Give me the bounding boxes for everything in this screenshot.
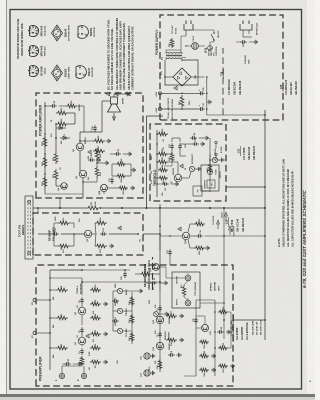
wire preamp to B+ tap <box>50 277 82 279</box>
wire R49 <box>171 162 173 166</box>
note marker triangle power supply <box>174 86 177 90</box>
filter capacitor C30 electrolytic <box>198 92 201 94</box>
capacitor C28a <box>217 331 220 333</box>
terminal VC from volume control <box>33 332 36 335</box>
resistor R38 <box>116 174 126 178</box>
note marker triangle power amp <box>88 150 91 154</box>
power amplifier section box <box>36 93 143 198</box>
filter capacitor C31 electrolytic <box>198 108 201 110</box>
wire preamp supply rail <box>49 270 51 370</box>
wire speed pot <box>210 159 212 161</box>
resistor R2 bias <box>56 346 68 350</box>
wire B+ rail vertical between reverb and power amp <box>33 207 265 209</box>
resistor R4 bias <box>56 288 68 292</box>
wire output box to power supply <box>209 154 211 165</box>
jack reverb input <box>185 300 191 306</box>
wire rail tap to reverb <box>37 208 39 213</box>
wire bias chain drops <box>45 193 83 195</box>
transistor base view Q11 2N2147 <box>76 66 86 79</box>
page bottom edge shadow <box>0 394 315 397</box>
transformer T1 secondary winding <box>166 58 169 59</box>
fuse F1 <box>208 46 213 51</box>
wire preamp row link <box>159 257 161 292</box>
power supply section box <box>160 15 283 120</box>
wire surge resistor <box>171 34 173 38</box>
wire preamp fourth row bus <box>214 300 216 376</box>
junction reverb-mixer <box>169 235 171 237</box>
transistor base view Q10 2N3053 <box>78 26 88 39</box>
power supply internal dashed divider <box>222 48 224 115</box>
potentiometer volume control <box>117 328 122 333</box>
ground power amp emitter <box>104 162 106 164</box>
wire feedback loop <box>96 178 98 182</box>
transistor Q7 oscillator <box>174 174 182 182</box>
resistor R21 <box>54 169 58 181</box>
wire mixer to bottom rail <box>204 235 265 237</box>
wire bias divider reverb <box>54 245 58 247</box>
resistor R9 <box>90 302 101 306</box>
capacitor C2 coupling <box>81 331 83 334</box>
resistor R53 <box>218 310 228 314</box>
wire tremolo top rail <box>156 130 158 197</box>
transistor Q16 reverb send follower <box>153 264 160 271</box>
resistor R40 between feeds <box>180 95 184 108</box>
capacitor C4 treble <box>112 320 115 322</box>
resistor R8 <box>90 316 101 320</box>
capacitor C25 <box>195 321 197 324</box>
page left edge shadow <box>6 0 7 394</box>
wire pot to transistor <box>182 177 189 179</box>
transistor base view U1 MPSA20 <box>30 25 39 36</box>
resistor R18 decoupling <box>140 272 151 276</box>
capacitor C35 bypass electrolytic <box>144 353 150 359</box>
resistor R39 <box>116 162 126 166</box>
wire bootstrap <box>45 105 50 107</box>
resistor R55 rail decoupling <box>86 206 100 210</box>
wire fourth row bottoms <box>228 347 231 349</box>
ground predriver <box>130 187 132 189</box>
wire C20 <box>110 153 114 155</box>
wire secondary to bridge loop <box>182 57 186 59</box>
wire VC terminal <box>36 332 50 334</box>
bridge rectifier SR1 <box>173 68 191 86</box>
resistor R7 <box>90 332 101 336</box>
resistor R27 feedback <box>93 149 105 153</box>
resistor R29 bias chain <box>43 136 47 148</box>
notes block <box>106 92 109 96</box>
wire line bypass <box>236 41 240 43</box>
wire reverb output <box>109 233 138 235</box>
reverb follower section box <box>33 213 143 255</box>
transformer T1 primary winding <box>166 52 169 53</box>
junction rail 4 <box>146 207 148 209</box>
junction power amp bias <box>55 137 57 139</box>
wire preamp signal line <box>81 345 83 346</box>
resistor R26 load <box>56 111 68 115</box>
ground third row a <box>211 369 213 371</box>
ground second row b <box>179 315 181 317</box>
resistor R41 tremolo <box>208 163 212 174</box>
wire C29 <box>124 269 126 271</box>
power transistor case view Q9 2N3055 TO-3 <box>52 65 63 81</box>
wire switch connections <box>209 42 211 46</box>
wire line cord upper <box>185 30 187 36</box>
jack reverb output <box>185 275 191 281</box>
ground C24 <box>204 137 206 139</box>
transistor Q14 mixer <box>182 232 190 240</box>
input jack J2 <box>81 373 86 378</box>
wire reverb unit jacks <box>184 297 188 300</box>
resistor R51 <box>218 364 228 368</box>
wire bottom supply rail <box>264 110 266 340</box>
resistor R37 mixer load <box>194 222 205 226</box>
foot switch cable dashed wires <box>27 199 29 256</box>
wire C27 <box>157 183 162 185</box>
ground filter cap <box>163 282 165 284</box>
ground lower network <box>131 169 133 171</box>
wire VG terminal <box>36 299 50 301</box>
resistor R44 tone <box>130 296 134 306</box>
wire preamp inter-row <box>82 281 160 283</box>
ground tremolo <box>197 168 199 170</box>
capacitor C19 compensation <box>111 181 113 184</box>
resistor R24 emitter <box>95 148 99 160</box>
note marker triangle mixer <box>178 227 181 231</box>
reverberation section dashed boundary <box>152 257 154 290</box>
capacitor C33 line bypass <box>240 41 243 43</box>
potentiometer treble control <box>117 308 122 313</box>
wire tap reverb follower output <box>143 233 160 235</box>
resistor R50 surge <box>170 38 174 48</box>
junction bridge loop <box>181 59 183 61</box>
wire power amp input line <box>82 178 84 198</box>
speaker SP1 <box>111 97 118 104</box>
relay RLY coil <box>207 180 215 188</box>
ground fourth row b <box>226 331 228 333</box>
wire speaker return <box>113 94 115 97</box>
wire oscillator loop <box>168 161 178 163</box>
wire collector Q5 to Q6 <box>79 151 81 171</box>
wire tremolo lower bus <box>209 138 211 190</box>
B+ feed line 1 <box>162 92 199 94</box>
capacitor C34 bypass electrolytic <box>144 370 150 376</box>
junction rail 1 <box>59 207 61 209</box>
output relay and fuse box <box>201 165 219 191</box>
wire preamp third row bus <box>195 316 197 376</box>
capacitor C1 coupling <box>81 352 83 355</box>
ground bypass caps <box>150 372 152 374</box>
resistor R36 mixer bias <box>194 246 205 250</box>
potentiometer bass control <box>117 288 122 293</box>
wire reverb mid <box>61 233 84 235</box>
ground C20 <box>127 153 129 155</box>
wire preamp top bus extension <box>50 269 130 271</box>
terminal tick b <box>215 144 217 148</box>
wire tap preamp to bottom rail <box>233 319 265 321</box>
wire zobel <box>89 140 93 142</box>
ground second row c <box>177 354 179 356</box>
ground line bypass <box>253 41 255 43</box>
note marker triangle tremolo <box>180 164 183 168</box>
resistor R6 load <box>90 346 101 350</box>
transistor Q5 driver <box>79 170 87 178</box>
ground fourth row a <box>230 365 232 367</box>
capacitor C15 <box>88 159 91 161</box>
resistor R5 load <box>90 360 101 364</box>
bridge wire loop <box>165 60 198 85</box>
ground preamp stage 2 <box>103 333 105 335</box>
resistor R35 predriver emitter <box>118 186 128 190</box>
wire reverb send <box>159 266 166 268</box>
capacitor C21 phase shift <box>171 147 173 150</box>
note marker triangle preamp <box>86 334 89 338</box>
ground reverb follower <box>109 245 111 247</box>
resistor R14 collector <box>95 221 107 225</box>
terminal tick a <box>215 156 217 160</box>
resistor R52 <box>218 346 228 350</box>
wire mixer bus <box>159 204 161 257</box>
terminal arrow a <box>217 220 220 224</box>
ground speed cap <box>200 143 202 145</box>
wire low bus riser <box>200 302 224 304</box>
wire line to transformer <box>181 35 186 37</box>
resistor R25 load <box>56 122 68 126</box>
wire bootstrap to output <box>77 105 84 107</box>
resistor R54 reverb unit <box>182 285 186 297</box>
note marker triangle reverb <box>118 226 121 230</box>
resistor R22 <box>54 152 58 164</box>
junction preamp bus <box>81 269 83 271</box>
capacitor C23 speed <box>192 143 195 145</box>
transistor Q4 predriver <box>61 183 68 190</box>
junction fourth row <box>214 347 216 349</box>
ground speaker <box>125 93 127 95</box>
capacitor C5 bass <box>112 300 115 302</box>
resistor R23 emitter <box>95 166 99 178</box>
wire jack bus <box>61 366 63 371</box>
wire filter cap <box>146 282 150 284</box>
wire rail to power supply <box>146 116 148 208</box>
terminal arrow b <box>225 212 228 216</box>
junction rail 6 <box>209 207 211 209</box>
reverb unit connector box <box>172 272 200 308</box>
wire transformer leads <box>165 50 167 54</box>
wire C13 into preamp <box>169 256 171 265</box>
capacitor C20 <box>114 153 117 155</box>
transistor Q6 output <box>76 143 84 151</box>
ground zobel <box>106 140 108 142</box>
resistor R49 tremolo <box>170 152 174 162</box>
wire preamp rail from B+ <box>50 269 82 271</box>
ground speed pot <box>220 159 222 161</box>
wire tone row bus <box>131 292 133 344</box>
resistor R46 <box>199 354 209 358</box>
capacitor C3 coupling <box>81 301 83 304</box>
wire predriver <box>83 187 100 189</box>
capacitor C6 <box>159 335 161 338</box>
wire power amp bias chain <box>44 102 46 194</box>
potentiometer speed control <box>212 157 217 162</box>
wire footswitch jack <box>202 190 210 192</box>
capacitor C27 tremolo <box>162 183 165 185</box>
capacitor C12 output <box>100 233 103 235</box>
transistor Q2A predriver <box>100 184 107 191</box>
terminal B+ 1 <box>159 92 162 95</box>
capacitor C14 mixer out <box>196 235 199 237</box>
resistor R12 <box>58 221 70 225</box>
junction feeds <box>181 108 183 110</box>
pilot lamp PL1 <box>192 43 199 50</box>
wire Q6 to output node <box>79 132 81 143</box>
resistor R13 emitter <box>95 244 107 248</box>
capacitor C18 bootstrap <box>50 105 53 107</box>
foot switch connector pin left <box>28 252 31 255</box>
junction rail 3 <box>121 207 123 209</box>
transistor Q15 recovery <box>201 324 208 331</box>
transistor Q3 reverb follower <box>84 230 92 238</box>
diode D2 <box>56 127 66 129</box>
junction bottom rail / B+ rail <box>264 207 266 209</box>
junction tremolo <box>156 177 158 179</box>
wire bridge left to feed <box>181 86 183 93</box>
ground C26 <box>77 363 79 365</box>
wire mixer connections <box>160 235 182 237</box>
input jack J1 <box>59 373 64 378</box>
junction bias chain <box>44 173 46 175</box>
foot switch connector pin right <box>28 201 31 204</box>
wire tone row drops <box>125 330 132 332</box>
resistor R11 <box>58 244 70 248</box>
resistor R30 bootstrap <box>66 104 77 108</box>
capacitor C29 preamp corner <box>124 275 126 278</box>
wire reverb follower main <box>38 233 52 235</box>
wire bridge bottom <box>191 76 205 78</box>
wire C26 <box>62 363 64 365</box>
wire third row connections <box>196 327 201 329</box>
resistor R43 tone <box>130 314 134 324</box>
potentiometer intensity control <box>189 166 194 171</box>
capacitor C24 tremolo <box>190 137 193 139</box>
resistor R33 <box>157 132 168 136</box>
capacitor C8 <box>168 354 171 356</box>
capacitor C9 filter <box>150 282 153 284</box>
wire reverb level pot <box>160 313 164 315</box>
wire bridge top to loop <box>165 76 173 78</box>
wire decoupling <box>135 273 140 275</box>
terminal B+ 2 <box>159 108 162 111</box>
resistor R28 zobel <box>93 139 105 143</box>
switch SW1 on volume control <box>213 39 215 41</box>
resistor R15 <box>158 359 162 370</box>
junction tremolo rail <box>156 161 158 163</box>
wire speed cap <box>188 143 192 145</box>
wire ps to bottom rail <box>207 114 265 116</box>
wire fourth row risers <box>196 299 215 301</box>
ground preamp stage 3 <box>103 303 105 305</box>
resistor R48 tremolo <box>158 168 168 172</box>
wire preamp low bus <box>223 208 225 339</box>
ground C27 <box>174 183 176 185</box>
resistor R19 bias chain <box>43 176 47 188</box>
ground mixer <box>205 247 207 249</box>
preamplifier section box <box>36 265 233 386</box>
resistor R3 bias <box>56 316 68 320</box>
wire Q3 connections <box>92 233 96 235</box>
transformer T1 core <box>166 55 182 57</box>
wire third row to rail <box>184 375 196 377</box>
remote foot switch connector box <box>25 196 33 259</box>
transistor base view U3 BC184 <box>30 65 39 76</box>
wire second stage row <box>159 292 161 372</box>
potentiometer reverb level <box>154 312 159 317</box>
ground reverb level pot <box>164 313 166 315</box>
wire filter bus <box>206 77 208 115</box>
footswitch jack tremolo <box>193 186 202 196</box>
tremolo section box <box>150 124 226 201</box>
junction reverb out <box>137 233 139 235</box>
resistor R34 tremolo <box>158 176 168 180</box>
ground C15 <box>96 159 98 161</box>
resistor R17 <box>166 314 177 318</box>
transistor Q2 second stage <box>78 307 86 315</box>
resistor R32 <box>157 152 168 156</box>
ground third row b <box>211 355 213 357</box>
wire pilot lamp legs <box>186 45 192 47</box>
resistor R10 <box>90 288 101 292</box>
capacitor C7 <box>159 309 161 312</box>
AC interlock plug P2 <box>240 24 252 30</box>
wire C24 <box>174 137 190 139</box>
junction low bus <box>223 319 225 321</box>
capacitor C13 mixer <box>169 253 171 256</box>
ground filter bus <box>207 101 209 103</box>
wire bypass caps <box>146 376 148 380</box>
junction rail 2 <box>99 207 101 209</box>
wire emitter resistors to ground bus <box>96 160 98 166</box>
wire tap tremolo to bottom rail <box>226 186 265 188</box>
resistor R45 <box>199 368 209 372</box>
capacitor C16 output coupling <box>94 129 96 132</box>
capacitor C26 input filter <box>64 363 67 365</box>
junction rail 5 <box>159 207 161 209</box>
fuse F2 <box>207 169 212 174</box>
resistor R1 input <box>80 356 84 366</box>
wire interlock <box>242 30 244 37</box>
resistor R20 bias chain <box>43 156 47 168</box>
transistor base view U2 MPSA05 <box>30 45 39 56</box>
resistor R16 <box>166 338 177 342</box>
ground tone row <box>138 290 140 292</box>
ground second row a <box>179 339 181 341</box>
resistor R42 tone <box>130 332 134 342</box>
B+ feed line 2 <box>162 108 199 110</box>
capacitor C11 input <box>52 233 55 235</box>
wire rail tap to power amp <box>59 198 61 208</box>
diode D1 bias <box>60 137 70 139</box>
ground preamp stage 1 <box>103 361 105 363</box>
AC line plug P1 <box>184 24 193 30</box>
transistor Q12 reverb drive <box>156 342 164 350</box>
terminal VG <box>33 299 36 302</box>
resistor R31 <box>157 160 168 164</box>
power transistor case view Q8 2N6148 TO-3 <box>52 25 63 41</box>
transistor Q13 <box>156 316 164 324</box>
junction mixer bus <box>159 233 161 235</box>
wire tone stack <box>113 330 117 332</box>
capacitor C22 phase shift <box>179 147 181 150</box>
wire lower network <box>112 175 116 177</box>
transistor Q1 first stage <box>78 337 86 345</box>
